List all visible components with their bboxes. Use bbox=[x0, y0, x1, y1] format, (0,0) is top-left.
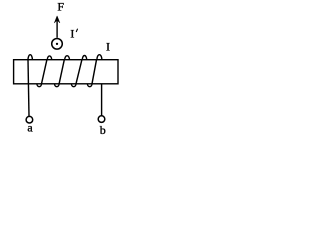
wire: front slant turn2->turn3 bbox=[59, 60, 64, 84]
coil turn 4 top arc bbox=[82, 56, 86, 60]
coil turn 1 bottom arc bbox=[37, 84, 42, 87]
wire: lead from coil down to terminal b bbox=[101, 84, 103, 116]
svg-text:I: I bbox=[70, 26, 74, 40]
coil turn 2 bottom arc bbox=[55, 84, 60, 87]
conductor I' : current out of page (circle with dot) bbox=[52, 39, 63, 50]
svg-text:F: F bbox=[57, 0, 64, 14]
svg-text:a: a bbox=[27, 120, 33, 134]
force arrow F (upward) bbox=[54, 16, 60, 38]
coil turn 1 top arc bbox=[28, 55, 32, 60]
coil turn 2 top arc bbox=[47, 56, 51, 60]
svg-text:b: b bbox=[100, 123, 106, 137]
svg-text:I: I bbox=[106, 39, 110, 53]
wire: lead from coil down to terminal a (in front of bar) bbox=[28, 60, 29, 116]
coil turn 5 top arc bbox=[97, 55, 102, 60]
coil turn 4 bottom arc bbox=[87, 84, 92, 87]
terminal b bbox=[98, 116, 105, 123]
solenoid core bar bbox=[14, 60, 118, 84]
wire: front slant turn1->turn2 bbox=[42, 60, 47, 84]
wire: front slant turn4->turn5 bbox=[92, 60, 97, 84]
prime mark of I' bbox=[76, 29, 77, 32]
terminal a bbox=[26, 116, 33, 123]
wire: front slant turn3->turn4 bbox=[76, 60, 82, 84]
coil turn 3 top arc bbox=[65, 56, 70, 60]
coil turn 3 bottom arc bbox=[71, 84, 76, 87]
